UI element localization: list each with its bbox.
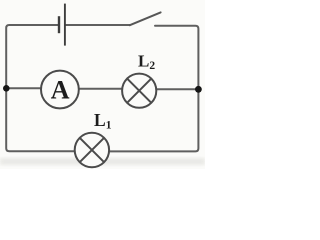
lamp L1 circle [75, 133, 109, 167]
lamp L1 cross [80, 138, 104, 162]
wire: top segment battery to switch pivot [66, 24, 130, 26]
lamp L2 cross [127, 79, 151, 103]
wire: left vertical + top-left segment to battery [6, 25, 75, 151]
node B (right junction dot) [195, 86, 202, 93]
wire: middle branch, node to ammeter [6, 87, 41, 89]
wire: lamp L2 to right node [156, 88, 198, 90]
battery long plate (positive) [64, 4, 66, 46]
node A (left junction dot) [3, 85, 10, 92]
lamp L2 circle [122, 74, 156, 108]
battery short plate (negative) [58, 16, 60, 33]
wire: ammeter to lamp L2 [79, 88, 122, 90]
switch blade (open) [130, 12, 161, 25]
svg-text:A: A [51, 76, 70, 105]
ammeter U1 circle [41, 71, 79, 109]
wire: switch right terminal to top-right corner, right vertical, bottom to lamp L1 [109, 26, 198, 152]
